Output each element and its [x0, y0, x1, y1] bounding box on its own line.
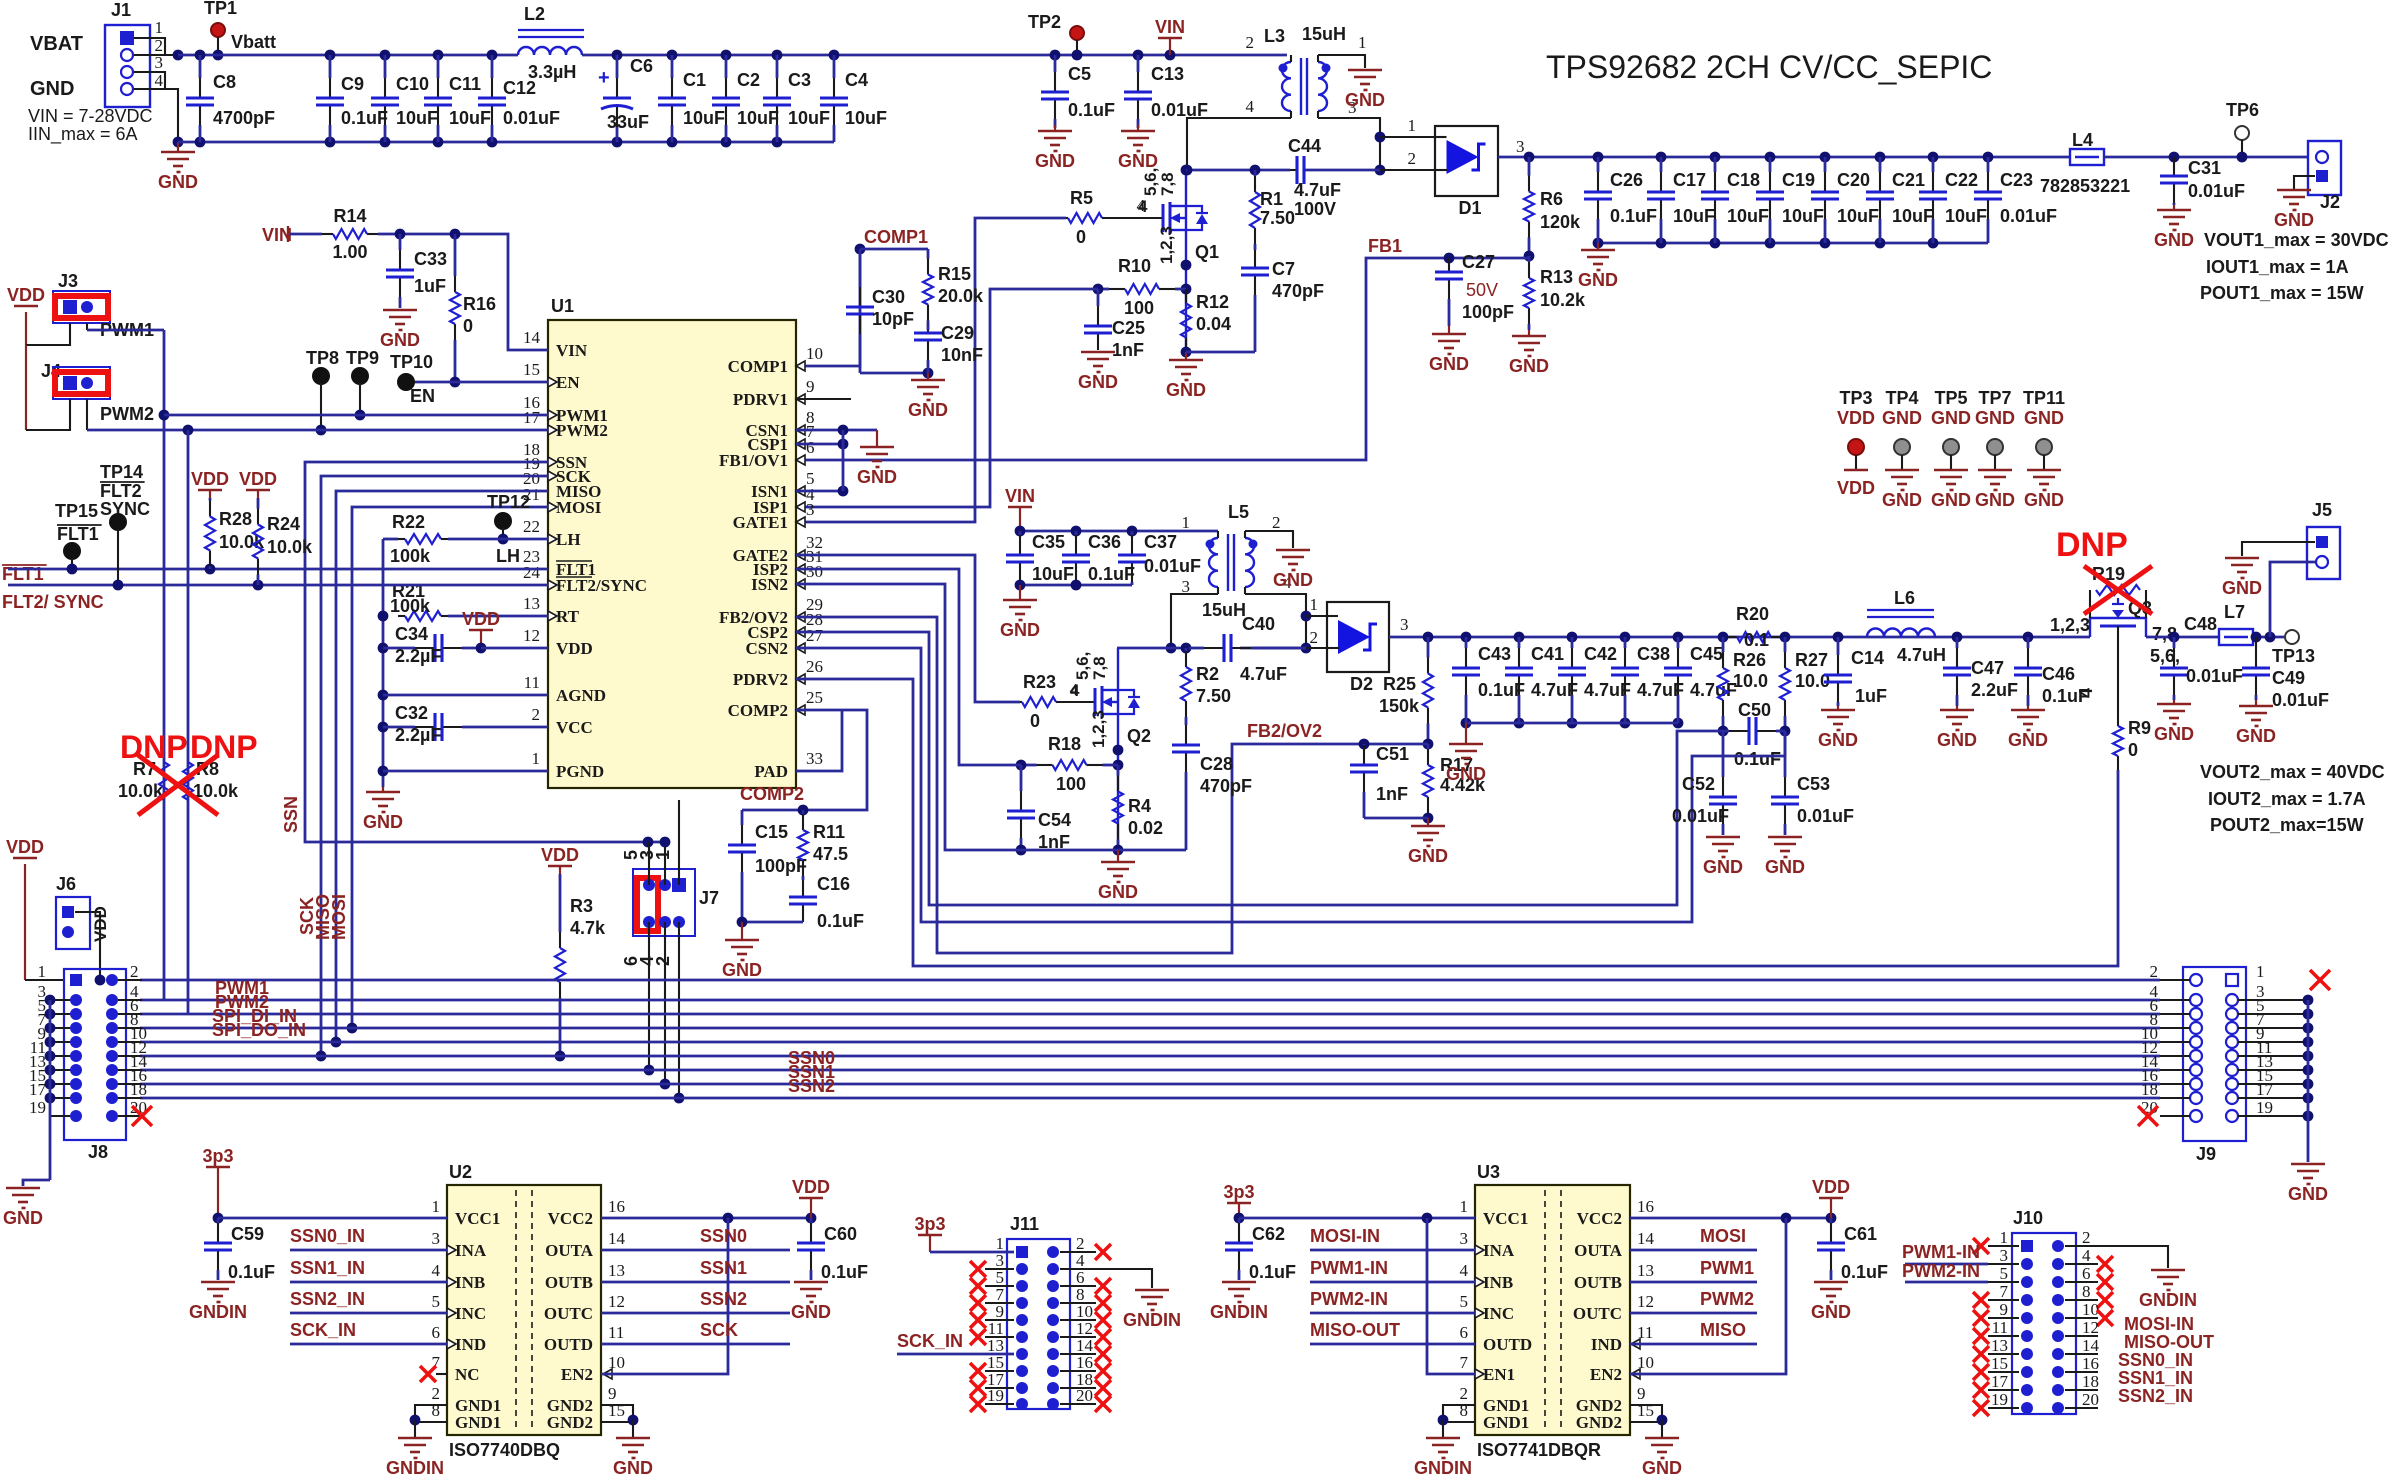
svg-text:COMP2: COMP2 [728, 701, 788, 720]
svg-text:SSN0: SSN0 [700, 1226, 747, 1246]
svg-text:15: 15 [1637, 1401, 1654, 1420]
svg-text:26: 26 [806, 657, 823, 676]
capacitor C29 [927, 329, 930, 332]
wire CSN2 from U1 pin27 [796, 648, 1785, 922]
svg-text:C3: C3 [788, 70, 811, 90]
svg-text:100k: 100k [390, 546, 431, 566]
svg-text:C52: C52 [1682, 774, 1715, 794]
wire C34 to U1 pin12 VDD [481, 647, 548, 650]
svg-text:VIN: VIN [556, 341, 588, 360]
node FB1 [1524, 251, 1535, 262]
svg-text:Q2: Q2 [1127, 726, 1151, 746]
svg-text:VIN = 7-28VDC: VIN = 7-28VDC [28, 106, 153, 126]
wire J11 pin 7 stub [985, 1302, 1014, 1304]
svg-text:C28: C28 [1200, 754, 1233, 774]
svg-text:MOSI-IN: MOSI-IN [1310, 1226, 1380, 1246]
svg-text:SSN1_IN: SSN1_IN [290, 1258, 365, 1278]
capacitor C48 [2169, 632, 2180, 643]
capacitor C52 [1722, 731, 1725, 777]
capacitor C16 [802, 879, 805, 882]
connector J8 [64, 969, 126, 1140]
svg-text:17: 17 [523, 408, 541, 427]
ground GNDIN at J11 [1135, 1289, 1169, 1292]
wire Q1 source down [1185, 230, 1187, 352]
wire U2 VCC2 to VDD [601, 1217, 811, 1220]
wire J11 pin 13 stub [985, 1353, 1014, 1355]
svg-text:R16: R16 [463, 294, 496, 314]
svg-text:3p3: 3p3 [1223, 1182, 1254, 1202]
svg-text:R28: R28 [219, 509, 252, 529]
svg-text:GND: GND [1578, 270, 1618, 290]
svg-text:4: 4 [1460, 1261, 1469, 1280]
label MOSI and wire from U3 OUTA [1630, 1249, 1757, 1252]
svg-text:4.7uF: 4.7uF [1240, 664, 1287, 684]
svg-text:EN1: EN1 [1483, 1365, 1515, 1384]
capacitor C2 [721, 50, 732, 61]
wire PWM1 to U1 pin16 [164, 414, 548, 417]
svg-text:R14: R14 [333, 206, 366, 226]
ground GND under C27 [1448, 326, 1450, 334]
svg-text:GND: GND [1975, 408, 2015, 428]
wire J11 pin 6 stub [1060, 1285, 1096, 1287]
svg-text:C14: C14 [1851, 648, 1884, 668]
ground GND under C60 [794, 1281, 828, 1284]
capacitor C51 [1363, 744, 1366, 745]
svg-text:C37: C37 [1144, 532, 1177, 552]
label SSN2 and wire from U2 OUTC [601, 1312, 790, 1315]
wire J10 pin 14 stub [2065, 1353, 2098, 1355]
svg-text:VCC1: VCC1 [1483, 1209, 1528, 1228]
svg-text:R23: R23 [1023, 672, 1056, 692]
wire CSP2 from U1 pin28 [796, 632, 1723, 905]
svg-text:EN2: EN2 [1590, 1365, 1622, 1384]
svg-text:C32: C32 [395, 703, 428, 723]
wire C44 rail [1187, 169, 1290, 172]
wire ISP2 from U1 pin31 [796, 569, 1021, 765]
svg-text:J7: J7 [699, 888, 719, 908]
svg-text:GND: GND [1273, 570, 1313, 590]
svg-text:1,2,3: 1,2,3 [1157, 226, 1176, 264]
svg-text:SYNC: SYNC [100, 499, 150, 519]
svg-text:C46: C46 [2042, 664, 2075, 684]
wire PDRV2 from U1 pin26 to Q3 gate [796, 679, 2118, 966]
svg-text:C15: C15 [755, 822, 788, 842]
wire J11 pin 12 stub [1060, 1336, 1096, 1338]
wire J9 pin 19 to gnd rail [2238, 1115, 2308, 1117]
wire J9 right gnd rail [2307, 1000, 2310, 1162]
svg-text:4: 4 [155, 71, 164, 90]
svg-text:0.1: 0.1 [1744, 630, 1769, 650]
capacitor C18 [1710, 152, 1721, 163]
ground GND under C31 [2173, 205, 2175, 210]
svg-text:GATE1: GATE1 [733, 513, 788, 532]
wire J4 pin1 to VDD rail [25, 345, 27, 430]
resistor R22 [383, 538, 398, 541]
capacitor C42 [1567, 632, 1578, 643]
power flag VIN at rail [1165, 50, 1176, 61]
wire R21 to U1 pin13 RT [448, 615, 548, 618]
wire J11 pin 1 stub [985, 1251, 1014, 1253]
wire MOSI from U1 pin21 [352, 507, 548, 1028]
svg-text:12: 12 [608, 1292, 625, 1311]
ground GNDIN under C62 [1222, 1281, 1256, 1284]
svg-text:MOSI: MOSI [556, 498, 602, 517]
svg-text:C4: C4 [845, 70, 868, 90]
resistor R25 [1427, 637, 1430, 658]
svg-text:C8: C8 [213, 72, 236, 92]
wire J11 pin 11 stub [985, 1336, 1014, 1338]
wire J11 pin 17 stub [985, 1387, 1014, 1389]
svg-text:VDD: VDD [1812, 1177, 1850, 1197]
svg-text:POUT2_max=15W: POUT2_max=15W [2210, 815, 2364, 835]
wire PDRV1 stub [796, 398, 851, 400]
svg-text:GND: GND [1931, 490, 1971, 510]
capacitor C41 [1514, 632, 1525, 643]
svg-text:GND: GND [1765, 857, 1805, 877]
svg-text:1: 1 [1182, 513, 1191, 532]
svg-text:10uF: 10uF [1673, 206, 1715, 226]
svg-text:IIN_max = 6A: IIN_max = 6A [28, 124, 138, 145]
ground GND under AGND bus [382, 787, 384, 792]
wire R22 to U1 pin22 LH [448, 538, 548, 541]
svg-text:VOUT2_max = 40VDC: VOUT2_max = 40VDC [2200, 762, 2385, 782]
wire J9 pin 11 to gnd rail [2238, 1055, 2308, 1057]
wire J10 pin 5 stub [1988, 1281, 2019, 1283]
wire J11 pin 19 stub [985, 1403, 1014, 1405]
svg-text:11: 11 [1992, 1318, 2008, 1337]
svg-text:8: 8 [1460, 1401, 1469, 1420]
wire J10 pin 10 stub [2065, 1317, 2098, 1319]
resistor R13 [1528, 256, 1531, 262]
wire C51 bottom to R17 bottom [1364, 817, 1428, 820]
svg-text:GND: GND [2154, 724, 2194, 744]
svg-text:4.7uF: 4.7uF [1690, 680, 1737, 700]
wire bus row 10 [140, 1041, 2160, 1044]
wire bus row 2 [140, 979, 2160, 982]
svg-text:10uF: 10uF [396, 108, 438, 128]
svg-text:VIN: VIN [1005, 486, 1035, 506]
wire ISN2 from U1 pin27 bottom rail [796, 584, 1186, 850]
wire PWM1 from J3 [86, 323, 88, 330]
svg-text:INB: INB [455, 1273, 485, 1292]
svg-text:INB: INB [1483, 1273, 1513, 1292]
svg-text:J10: J10 [2013, 1208, 2043, 1228]
svg-text:C10: C10 [396, 74, 429, 94]
svg-text:SSN1: SSN1 [700, 1258, 747, 1278]
svg-text:GND: GND [791, 1302, 831, 1322]
svg-text:GNDIN: GNDIN [189, 1302, 247, 1322]
svg-text:3: 3 [432, 1229, 441, 1248]
svg-text:12: 12 [523, 626, 540, 645]
capacitor C17 [1656, 152, 1667, 163]
wire J9 pin 5 to gnd rail [2238, 1013, 2308, 1015]
capacitor C9 [325, 50, 336, 61]
svg-text:30: 30 [806, 562, 823, 581]
svg-text:R22: R22 [392, 512, 425, 532]
ground GND under C26 [1597, 243, 1599, 250]
ground GND under C29 [927, 373, 929, 380]
wire J9 pin 3 to gnd rail [2238, 999, 2308, 1001]
capacitor C30 [859, 249, 862, 287]
svg-text:0.1uF: 0.1uF [1088, 564, 1135, 584]
svg-text:MISO-OUT: MISO-OUT [1310, 1320, 1400, 1340]
svg-text:10uF: 10uF [1892, 206, 1934, 226]
svg-text:47.5: 47.5 [813, 844, 848, 864]
resistor R11 [802, 810, 805, 814]
ground GND at J2 [2277, 189, 2311, 192]
svg-text:0: 0 [1030, 711, 1040, 731]
svg-text:15: 15 [608, 1401, 625, 1420]
transistor Q1 [1162, 204, 1165, 232]
svg-text:2.2µF: 2.2µF [395, 646, 441, 666]
svg-text:GND: GND [1975, 490, 2015, 510]
svg-text:10.0: 10.0 [1733, 671, 1768, 691]
svg-text:0.01uF: 0.01uF [2000, 206, 2057, 226]
svg-text:PDRV2: PDRV2 [733, 670, 788, 689]
diode D2 [1327, 602, 1389, 672]
wire J10 pin 12 stub [2065, 1335, 2098, 1337]
svg-text:PWM1-IN: PWM1-IN [1902, 1242, 1980, 1262]
capacitor C46 [2023, 632, 2034, 643]
svg-text:0.02: 0.02 [1128, 818, 1163, 838]
svg-text:GND: GND [908, 400, 948, 420]
wire J10 pin 2 stub [2065, 1245, 2098, 1247]
wire D2 pin1 stub [1306, 615, 1327, 617]
capacitor C32 [383, 726, 415, 729]
svg-text:RT: RT [556, 607, 580, 626]
svg-text:J6: J6 [56, 874, 76, 894]
wire J10 pin 4 stub [2065, 1263, 2098, 1265]
capacitor C15 [741, 810, 744, 825]
capacitor C21 [1875, 152, 1886, 163]
svg-text:COMP2: COMP2 [740, 784, 804, 804]
wire CSN1 from U1 pin8 [796, 429, 877, 432]
ground GNDIN under U3 left [1426, 1437, 1460, 1440]
svg-text:10.2k: 10.2k [1540, 290, 1586, 310]
wire J11 pin 15 stub [985, 1370, 1014, 1372]
svg-text:20.0k: 20.0k [938, 286, 984, 306]
capacitor C23 [1983, 152, 1994, 163]
svg-text:12: 12 [2082, 1318, 2099, 1337]
svg-text:TP3: TP3 [1839, 388, 1872, 408]
svg-text:MISO-OUT: MISO-OUT [2124, 1332, 2214, 1352]
wire GATE2 from U1 pin32 [796, 555, 1020, 702]
svg-text:TP10: TP10 [390, 352, 433, 372]
wire D1 pin2 stub [1380, 169, 1435, 171]
svg-text:0.01uF: 0.01uF [1672, 806, 1729, 826]
svg-text:R13: R13 [1540, 267, 1573, 287]
wire J8 pin 15 to gnd rail [50, 1083, 70, 1085]
cross no-connect J8 pin20 [132, 1106, 152, 1126]
svg-text:PWM2: PWM2 [100, 404, 154, 424]
svg-text:C2: C2 [737, 70, 760, 90]
wire U3 VCC2 to VDD [1630, 1217, 1831, 1220]
wire J11 pin 9 stub [985, 1319, 1014, 1321]
svg-text:L6: L6 [1894, 588, 1915, 608]
wire L5 pin3 to switch node [1171, 594, 1218, 648]
svg-text:R9: R9 [2128, 718, 2151, 738]
diode D1 [1435, 126, 1498, 196]
resistor R21 [397, 615, 400, 618]
svg-text:GND: GND [722, 960, 762, 980]
ground GND under R13 [1528, 330, 1530, 336]
svg-text:0.01uF: 0.01uF [2188, 181, 2245, 201]
svg-text:0.1uF: 0.1uF [341, 108, 388, 128]
svg-text:16: 16 [608, 1197, 625, 1216]
svg-text:R12: R12 [1196, 292, 1229, 312]
svg-text:7,8: 7,8 [1090, 656, 1109, 680]
wire J9 pin 10 stub [2160, 1041, 2190, 1043]
svg-text:R24: R24 [267, 514, 300, 534]
capacitor C13 [1133, 50, 1144, 61]
wire FLT1 to U1 pin23 [8, 568, 548, 571]
label SSN1 and wire from U2 OUTB [601, 1281, 790, 1284]
svg-text:14: 14 [608, 1229, 626, 1248]
svg-text:3p3: 3p3 [914, 1214, 945, 1234]
svg-text:VIN: VIN [1155, 17, 1185, 37]
wire J11 pin 14 stub [1060, 1353, 1096, 1355]
wire MISO from U1 pin20 [336, 491, 548, 1042]
ground GND under C13 [1137, 125, 1139, 131]
svg-text:ISN2: ISN2 [751, 575, 788, 594]
wire VIN to R14 [290, 233, 322, 236]
svg-text:TP8: TP8 [306, 348, 339, 368]
wire J6 to bus row2 [75, 912, 100, 980]
svg-text:C42: C42 [1584, 644, 1617, 664]
capacitor C59 [217, 1218, 220, 1223]
wire J10 pin 15 stub [1988, 1371, 2019, 1373]
wire J9 pin 13 to gnd rail [2238, 1069, 2308, 1071]
svg-text:EN2: EN2 [561, 1365, 593, 1384]
svg-text:GND: GND [1000, 620, 1040, 640]
svg-text:GND: GND [2274, 210, 2314, 230]
svg-text:782853221: 782853221 [2040, 176, 2130, 196]
svg-text:2: 2 [1310, 628, 1319, 647]
svg-text:PWM2: PWM2 [556, 421, 608, 440]
svg-text:GND: GND [1035, 151, 1075, 171]
wire J1 pin1 to rail [134, 38, 165, 55]
svg-text:R10: R10 [1118, 256, 1151, 276]
svg-text:MOSI-IN: MOSI-IN [2124, 1314, 2194, 1334]
svg-text:J3: J3 [58, 271, 78, 291]
ground GNDIN under C59 [201, 1281, 235, 1284]
svg-text:GND: GND [1446, 764, 1486, 784]
svg-text:C59: C59 [231, 1224, 264, 1244]
capacitor C14 [1833, 632, 1844, 643]
svg-text:GND: GND [1703, 857, 1743, 877]
svg-text:4.7k: 4.7k [570, 918, 606, 938]
svg-text:R3: R3 [570, 896, 593, 916]
svg-text:TP9: TP9 [346, 348, 379, 368]
svg-text:PWM2: PWM2 [1700, 1289, 1754, 1309]
wire CSP1 from U1 pin7 [796, 443, 843, 446]
svg-text:C60: C60 [824, 1224, 857, 1244]
ground GND at J5 [2225, 557, 2259, 560]
ground GND under C33 [383, 309, 417, 312]
svg-text:100k: 100k [390, 596, 431, 616]
svg-text:GNDIN: GNDIN [386, 1458, 444, 1477]
label PWM2 and wire from U3 OUTC [1630, 1312, 1757, 1315]
svg-text:C30: C30 [872, 287, 905, 307]
capacitor C28 [1185, 720, 1188, 725]
capacitor C49 [2251, 632, 2262, 643]
svg-text:1uF: 1uF [1855, 686, 1887, 706]
svg-text:AGND: AGND [556, 686, 606, 705]
svg-text:8: 8 [432, 1401, 441, 1420]
svg-text:7: 7 [2000, 1282, 2009, 1301]
svg-text:6: 6 [432, 1323, 441, 1342]
svg-text:IND: IND [455, 1335, 486, 1354]
svg-text:TP13: TP13 [2272, 646, 2315, 666]
svg-text:2: 2 [2082, 1228, 2091, 1247]
svg-text:PWM1-IN: PWM1-IN [1310, 1258, 1388, 1278]
svg-text:PWM1: PWM1 [1700, 1258, 1754, 1278]
svg-text:IOUT1_max = 1A: IOUT1_max = 1A [2206, 257, 2349, 277]
wire J5 pin2 to output [2270, 562, 2315, 637]
svg-text:1: 1 [2256, 962, 2265, 981]
wire J7 pin3 stub up [664, 842, 666, 885]
svg-text:1: 1 [2000, 1228, 2009, 1247]
wire bus row 12 [140, 1055, 2160, 1058]
svg-text:SCK: SCK [700, 1320, 738, 1340]
svg-text:C16: C16 [817, 874, 850, 894]
svg-text:7.50: 7.50 [1260, 208, 1295, 228]
svg-text:J2: J2 [2320, 192, 2340, 212]
wire ch2 caps bottom rail [1020, 584, 1132, 587]
svg-text:5,6,: 5,6, [2150, 646, 2180, 666]
svg-text:GND: GND [1937, 730, 1977, 750]
capacitor C3 [772, 50, 783, 61]
svg-text:FLT2: FLT2 [100, 481, 142, 501]
wire J9 pin 18 stub [2160, 1097, 2190, 1099]
svg-text:R5: R5 [1070, 188, 1093, 208]
svg-text:R6: R6 [1540, 189, 1563, 209]
capacitor C20 [1820, 152, 1831, 163]
svg-text:10nF: 10nF [941, 345, 983, 365]
svg-text:MOSI: MOSI [329, 894, 349, 940]
capacitor C43 [1461, 632, 1472, 643]
svg-text:OUTA: OUTA [1574, 1241, 1623, 1260]
svg-text:1nF: 1nF [1112, 340, 1144, 360]
wire L3 pin3 to D1 [1318, 118, 1380, 170]
ground GND at L3 pin1 [1348, 69, 1382, 72]
wire J5 pin1 to gnd [2242, 542, 2315, 556]
svg-text:COMP1: COMP1 [864, 227, 928, 247]
svg-text:19: 19 [2256, 1098, 2273, 1117]
wire J1 pin3 to gnd [134, 72, 165, 89]
wire J11 pin 3 stub [985, 1268, 1014, 1270]
ground GND under C52 [1706, 836, 1740, 839]
svg-text:7.50: 7.50 [1196, 686, 1231, 706]
capacitor C7 [1254, 249, 1257, 252]
svg-text:100pF: 100pF [1462, 302, 1514, 322]
svg-text:C38: C38 [1637, 644, 1670, 664]
svg-text:VDD: VDD [1837, 408, 1875, 428]
svg-text:C53: C53 [1797, 774, 1830, 794]
capacitor C25 [1097, 289, 1100, 306]
svg-text:0.1uF: 0.1uF [817, 911, 864, 931]
wire J8 left gnd rail [49, 1000, 52, 1180]
svg-text:13: 13 [608, 1261, 625, 1280]
svg-text:IOUT2_max = 1.7A: IOUT2_max = 1.7A [2208, 789, 2366, 809]
cross no-connect U2 pin7 NC [420, 1366, 436, 1382]
svg-text:Vbatt: Vbatt [231, 32, 276, 52]
svg-text:1: 1 [1358, 33, 1367, 52]
svg-text:2.2µF: 2.2µF [395, 725, 441, 745]
svg-text:FLT2/ SYNC: FLT2/ SYNC [2, 592, 104, 612]
svg-text:5: 5 [432, 1292, 441, 1311]
wire COMP2 from U1 pin25 [742, 710, 867, 810]
